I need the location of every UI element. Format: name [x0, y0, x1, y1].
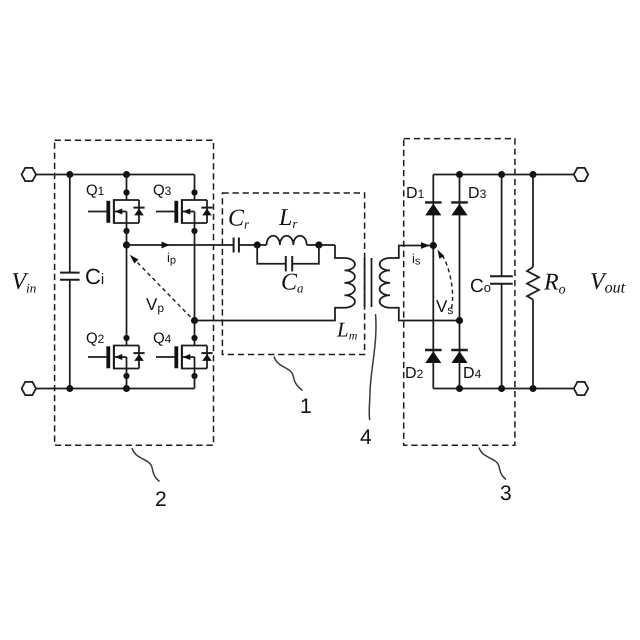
node Ro top: [530, 171, 537, 178]
svg-text:Ro: Ro: [543, 270, 566, 298]
diode D2: [425, 350, 442, 363]
resistor Ro: [527, 175, 539, 389]
wire Q4 source to bottom rail: [194, 369, 196, 389]
diode D1: [425, 202, 442, 215]
svg-text:Q4: Q4: [153, 330, 172, 347]
svg-text:Q1: Q1: [86, 182, 105, 199]
leader line to label 1: [274, 357, 303, 391]
node Q1 leg top junction: [123, 171, 130, 178]
node D3 top: [456, 171, 463, 178]
transformer primary winding Lm: [345, 258, 355, 308]
svg-text:Lr: Lr: [278, 205, 298, 231]
wire left bridge leg (drain Q1): [126, 175, 128, 201]
enclosure box 2 (full-bridge inverter): [55, 140, 214, 445]
svg-text:is: is: [412, 251, 421, 268]
wire node B to Q4 drain: [194, 321, 196, 346]
svg-text:1: 1: [300, 395, 312, 418]
node Co bottom: [498, 385, 505, 392]
wire secondary top to rectifier node C: [390, 246, 433, 259]
svg-text:3: 3: [500, 482, 512, 505]
node Ci top junction: [66, 171, 73, 178]
output terminal top-right: [574, 168, 588, 181]
input terminal bottom-left: [22, 382, 36, 395]
svg-text:Vin: Vin: [12, 269, 37, 296]
wire node A to Q2 drain: [126, 245, 128, 345]
node C (D1-D2 midpoint): [430, 242, 437, 249]
wire primary winding bottom to node B: [195, 308, 345, 321]
leader line to label 4: [369, 314, 376, 420]
svg-text:2: 2: [155, 488, 167, 511]
wire Q2 source to bottom rail: [126, 369, 128, 389]
svg-text:Co: Co: [470, 276, 491, 297]
current arrow is: [421, 242, 430, 249]
svg-text:Vs: Vs: [436, 297, 453, 317]
svg-text:Cr: Cr: [228, 206, 250, 232]
transistor Q2: [88, 335, 145, 379]
wire top input rail: [36, 174, 195, 176]
node A (left leg midpoint): [123, 241, 130, 248]
transistor Q1: [88, 189, 145, 234]
capacitor Ci: [60, 175, 80, 389]
svg-text:D1: D1: [406, 185, 425, 202]
svg-text:Lm: Lm: [336, 318, 358, 343]
input terminal top-left: [22, 168, 36, 181]
svg-text:ip: ip: [167, 250, 176, 267]
voltage arrow Vp (dashed): [130, 255, 191, 317]
wire Lr to node: [307, 244, 335, 246]
wire right bridge leg (drain Q3): [194, 175, 196, 201]
svg-text:D2: D2: [405, 365, 424, 382]
wire rectifier right column: [459, 175, 461, 389]
svg-text:D3: D3: [468, 185, 487, 202]
wire bottom input rail: [36, 388, 195, 390]
wire secondary bottom to rectifier node D: [390, 308, 460, 321]
node Co top: [498, 171, 505, 178]
transistor Q4: [156, 335, 213, 379]
output terminal bottom-right: [574, 382, 588, 395]
enclosure box 1 (resonant tank): [222, 193, 364, 355]
svg-text:4: 4: [360, 426, 372, 449]
node Lr-Ca right: [315, 241, 322, 248]
svg-text:D4: D4: [463, 365, 482, 382]
wire tank output to primary winding top: [335, 245, 345, 258]
inductor Lr: [267, 236, 307, 245]
voltage arrow Vs (dashed): [438, 250, 453, 309]
node Ci bottom junction: [66, 385, 73, 392]
wire bottom output rail: [433, 388, 574, 390]
transistor Q3: [156, 189, 213, 234]
wire top output rail: [433, 174, 574, 176]
capacitor Cr: [234, 238, 239, 253]
transformer core: [365, 258, 372, 307]
diode D4: [451, 350, 468, 363]
leader line to label 3: [479, 448, 506, 480]
wire Q1 source to node A: [126, 223, 128, 245]
node Lr-Ca left: [254, 241, 261, 248]
transformer secondary winding: [380, 258, 390, 308]
svg-text:Ca: Ca: [281, 270, 304, 296]
capacitor Co: [490, 175, 513, 389]
wire node A to Cr (primary current path): [127, 244, 234, 246]
current arrow ip: [162, 242, 171, 249]
diode D3: [451, 202, 468, 215]
capacitor Ca branch: [257, 245, 319, 271]
wire rectifier left column: [432, 175, 434, 389]
enclosure box 3 (rectifier): [404, 139, 515, 446]
node Q2 leg bottom junction: [123, 385, 130, 392]
svg-text:Q3: Q3: [153, 182, 172, 199]
wire Q3 source to node B: [194, 223, 196, 321]
leader line to label 2: [132, 448, 160, 482]
wire Cr to Lr node: [239, 244, 267, 246]
svg-text:Vout: Vout: [590, 269, 626, 297]
svg-text:Vp: Vp: [146, 295, 164, 315]
node Ro bottom: [530, 385, 537, 392]
node D (D3-D4 midpoint): [456, 317, 463, 324]
node D4 bottom: [456, 385, 463, 392]
node B (right leg midpoint): [191, 317, 198, 324]
svg-text:Ci: Ci: [85, 264, 104, 289]
svg-text:Q2: Q2: [86, 330, 105, 347]
